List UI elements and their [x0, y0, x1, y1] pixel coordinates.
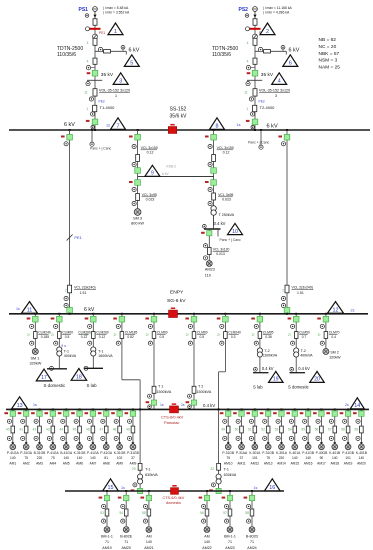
svg-text:AM3: AM3	[36, 462, 43, 466]
svg-text:S domestic: S domestic	[44, 383, 67, 388]
svg-text:AM20: AM20	[122, 546, 131, 550]
svg-text:2!: 2!	[51, 333, 54, 337]
svg-text:3: 3	[275, 94, 277, 98]
svg-text:PE2: PE2	[259, 100, 265, 104]
svg-text:35 kV: 35 kV	[261, 72, 274, 78]
svg-text:1.51: 1.51	[80, 291, 87, 295]
svg-text:2: 2	[282, 289, 284, 293]
svg-text:51: 51	[248, 427, 252, 431]
svg-text:K-401B: K-401B	[356, 451, 368, 455]
svg-text:75: 75	[266, 456, 270, 460]
svg-text:AM23: AM23	[205, 268, 215, 272]
svg-text:0.023: 0.023	[146, 197, 155, 201]
svg-text:6 kV: 6 kV	[162, 172, 169, 176]
svg-text:7: 7	[117, 124, 120, 130]
svg-text:101: 101	[252, 456, 258, 460]
svg-text:220: 220	[37, 456, 43, 460]
svg-text:2s: 2s	[345, 403, 349, 407]
svg-text:NBK = 57: NBK = 57	[319, 51, 340, 57]
svg-text:2s: 2s	[351, 309, 355, 313]
svg-text:53: 53	[275, 427, 279, 431]
svg-text:AM24: AM24	[247, 546, 256, 550]
svg-text:T-2: T-2	[264, 349, 269, 353]
svg-text:B-41GA: B-41GA	[60, 451, 73, 455]
svg-text:P-41GA: P-41GA	[47, 451, 60, 455]
svg-text:CLM260: CLM260	[78, 331, 91, 335]
svg-text:140: 140	[305, 456, 311, 460]
svg-text:1s: 1s	[33, 403, 37, 407]
svg-text:1s: 1s	[254, 486, 258, 490]
svg-text:71: 71	[105, 540, 109, 544]
svg-text:6 kV: 6 kV	[129, 48, 140, 54]
svg-text:K-301A: K-301A	[276, 451, 288, 455]
svg-text:4: 4	[247, 41, 249, 45]
svg-text:0.023: 0.023	[222, 197, 231, 201]
svg-text:4: 4	[278, 79, 281, 85]
svg-text:1600kVA: 1600kVA	[98, 354, 113, 358]
svg-text:PE1: PE1	[74, 235, 81, 240]
svg-text:53: 53	[100, 511, 104, 515]
svg-text:CLM185: CLM185	[125, 331, 138, 335]
svg-text:AM6: AM6	[76, 462, 83, 466]
svg-text:CLM95: CLM95	[263, 331, 274, 335]
svg-text:32: 32	[210, 467, 214, 471]
svg-text:0.4 kV: 0.4 kV	[203, 403, 215, 408]
svg-text:6 kV: 6 kV	[267, 123, 278, 129]
svg-text:S domestic: S domestic	[288, 384, 309, 389]
svg-text:AM14: AM14	[277, 462, 286, 466]
svg-text:0.82: 0.82	[127, 335, 134, 339]
svg-text:AM7: AM7	[90, 462, 97, 466]
svg-text:NC = 20: NC = 20	[319, 44, 337, 50]
svg-text:domestic: domestic	[166, 501, 181, 505]
svg-text:0.12: 0.12	[223, 151, 230, 155]
svg-text:P-41GA: P-41GA	[87, 451, 100, 455]
svg-text:20: 20	[314, 377, 320, 383]
svg-text:2!: 2!	[27, 333, 30, 337]
svg-text:CTS-6/0.4kV: CTS-6/0.4kV	[161, 415, 184, 420]
svg-text:Panc + j Canc: Panc + j Canc	[248, 141, 270, 145]
svg-text:400kVA: 400kVA	[300, 354, 313, 358]
svg-text:T-1: T-1	[145, 468, 150, 472]
svg-text:2!: 2!	[114, 333, 117, 337]
svg-text:10: 10	[232, 229, 238, 235]
svg-text:43: 43	[46, 427, 50, 431]
svg-text:P-31GA: P-31GA	[20, 451, 33, 455]
svg-text:58: 58	[245, 511, 249, 515]
svg-text:2!: 2!	[217, 333, 220, 337]
svg-text:T2-4000: T2-4000	[260, 105, 276, 110]
svg-text:CLM60: CLM60	[197, 331, 208, 335]
svg-text:T-1: T-1	[64, 349, 69, 353]
svg-text:VCL 3x95: VCL 3x95	[218, 193, 233, 197]
svg-text:AM4: AM4	[49, 462, 56, 466]
svg-text:1.51: 1.51	[297, 291, 304, 295]
svg-text:630kVA: 630kVA	[145, 473, 158, 477]
svg-text:SM 2: SM 2	[330, 351, 338, 355]
svg-text:1: 1	[115, 94, 117, 98]
svg-text:0.4 kV: 0.4 kV	[298, 366, 310, 371]
svg-text:AM5: AM5	[63, 462, 70, 466]
svg-text:140: 140	[146, 540, 152, 544]
svg-text:B-31GB: B-31GB	[34, 451, 47, 455]
svg-text:PE1: PE1	[99, 31, 105, 35]
svg-text:0.36: 0.36	[265, 335, 272, 339]
svg-text:Panc + j Canc: Panc + j Canc	[90, 147, 112, 151]
svg-text:8: 8	[216, 124, 219, 130]
svg-text:AM11: AM11	[237, 462, 246, 466]
svg-text:37: 37	[131, 456, 135, 460]
svg-text:110: 110	[205, 274, 211, 278]
svg-text:56: 56	[315, 427, 319, 431]
svg-text:41: 41	[19, 427, 23, 431]
svg-text:SS-152: SS-152	[170, 107, 187, 113]
svg-text:1s: 1s	[121, 486, 125, 490]
svg-text:P-31AA: P-31AA	[236, 451, 248, 455]
svg-text:29: 29	[132, 467, 136, 471]
svg-text:CLM240: CLM240	[228, 331, 241, 335]
svg-text:320kW: 320kW	[329, 356, 341, 360]
svg-text:1: 1	[114, 29, 117, 35]
svg-text:AM21: AM21	[144, 546, 153, 550]
svg-text:T 2: T 2	[198, 385, 203, 389]
svg-text:K-31GB: K-31GB	[74, 451, 87, 455]
svg-text:4: 4	[87, 41, 89, 45]
svg-text:1500kVA: 1500kVA	[157, 390, 172, 394]
svg-text:2s: 2s	[181, 403, 185, 407]
svg-text:0.5: 0.5	[200, 335, 205, 339]
svg-text:AM1: AM1	[9, 462, 16, 466]
svg-text:VOL-35-152 3x120: VOL-35-152 3x120	[99, 89, 130, 93]
svg-text:48: 48	[113, 427, 117, 431]
svg-text:Panc + j Canc: Panc + j Canc	[220, 238, 242, 242]
svg-text:2: 2	[65, 289, 67, 293]
svg-text:6 kV: 6 kV	[64, 122, 75, 128]
svg-text:35 kV: 35 kV	[101, 72, 114, 78]
svg-text:140: 140	[90, 456, 96, 460]
svg-text:BM-1-1: BM-1-1	[101, 535, 113, 539]
svg-text:13: 13	[17, 403, 23, 409]
svg-text:6 kV: 6 kV	[84, 307, 95, 313]
svg-text:2!: 2!	[146, 333, 149, 337]
svg-text:0.4: 0.4	[331, 335, 336, 339]
svg-text:PS1: PS1	[79, 7, 89, 13]
svg-text:4: 4	[247, 60, 249, 64]
svg-text:47: 47	[99, 427, 103, 431]
svg-text:0.3: 0.3	[231, 335, 236, 339]
svg-text:9: 9	[151, 171, 154, 177]
svg-text:49: 49	[221, 427, 225, 431]
svg-text:T 1: T 1	[158, 385, 163, 389]
svg-text:6: 6	[289, 61, 292, 67]
svg-text:37: 37	[240, 456, 244, 460]
svg-text:1: 1	[86, 107, 88, 111]
svg-text:| i min = 3.552 kA: | i min = 3.552 kA	[103, 10, 130, 14]
svg-text:K-31GB: K-31GB	[114, 451, 127, 455]
svg-text:0.4 kV: 0.4 kV	[262, 366, 274, 371]
svg-text:11: 11	[84, 91, 88, 95]
svg-text:VCL 2(3x240): VCL 2(3x240)	[74, 286, 95, 290]
svg-text:75: 75	[24, 456, 28, 460]
svg-text:T 250kVA: T 250kVA	[219, 213, 235, 217]
svg-text:56: 56	[200, 511, 204, 515]
svg-text:VCL 3x150: VCL 3x150	[217, 146, 234, 150]
svg-text:57: 57	[223, 511, 227, 515]
svg-text:AM10: AM10	[224, 462, 233, 466]
svg-text:P-41GA: P-41GA	[7, 451, 20, 455]
svg-text:AM12: AM12	[251, 462, 260, 466]
svg-text:SM 1: SM 1	[31, 357, 40, 361]
svg-text:K-401B: K-401B	[329, 451, 341, 455]
svg-text:NSM = 3: NSM = 3	[319, 58, 338, 64]
svg-text:18: 18	[76, 375, 82, 381]
svg-text:PS2: PS2	[239, 7, 249, 13]
svg-text:57: 57	[328, 427, 332, 431]
svg-text:54: 54	[119, 511, 123, 515]
svg-text:1s: 1s	[237, 123, 241, 127]
svg-text:4: 4	[87, 60, 89, 64]
svg-text:CLM60: CLM60	[157, 331, 168, 335]
svg-text:BM-1-1: BM-1-1	[224, 535, 236, 539]
svg-text:VCL 3x120: VCL 3x120	[213, 248, 230, 252]
svg-text:AM19: AM19	[344, 462, 353, 466]
svg-text:AM20: AM20	[357, 462, 366, 466]
svg-text:SM 3: SM 3	[133, 217, 142, 221]
svg-text:0.185: 0.185	[41, 335, 49, 339]
svg-text:AM: AM	[204, 535, 209, 539]
svg-text:NAM = 25: NAM = 25	[319, 65, 341, 71]
svg-text:T1-4000: T1-4000	[100, 105, 116, 110]
svg-text:0.013: 0.013	[216, 252, 225, 256]
svg-text:1: 1	[246, 107, 248, 111]
svg-text:140: 140	[332, 456, 338, 460]
svg-text:11: 11	[244, 91, 248, 95]
svg-text:140: 140	[292, 456, 298, 460]
svg-text:CLM260: CLM260	[96, 331, 109, 335]
svg-text:140: 140	[77, 456, 83, 460]
svg-text:52: 52	[261, 427, 265, 431]
svg-text:50: 50	[235, 427, 239, 431]
svg-text:VCL 2(3x240): VCL 2(3x240)	[292, 286, 313, 290]
svg-text:11: 11	[27, 307, 33, 313]
svg-text:630kVA: 630kVA	[224, 473, 237, 477]
svg-text:71: 71	[124, 540, 128, 544]
svg-text:140: 140	[204, 540, 210, 544]
svg-text:17: 17	[41, 375, 47, 381]
svg-text:VCL 3x150: VCL 3x150	[141, 146, 158, 150]
svg-text:1500kVA: 1500kVA	[197, 390, 212, 394]
svg-text:19: 19	[273, 377, 279, 383]
svg-text:P-31GB: P-31GB	[127, 451, 140, 455]
svg-text:ENPY: ENPY	[170, 290, 184, 296]
svg-text:K-301A: K-301A	[249, 451, 261, 455]
svg-text:320kW: 320kW	[30, 361, 42, 365]
svg-text:2!: 2!	[252, 333, 255, 337]
svg-text:0.5: 0.5	[65, 335, 70, 339]
svg-text:T-2: T-2	[301, 349, 306, 353]
svg-text:CLM70: CLM70	[329, 331, 340, 335]
svg-text:S lab: S lab	[253, 384, 263, 389]
svg-text:102: 102	[117, 456, 123, 460]
svg-text:1s: 1s	[16, 307, 20, 311]
svg-text:140: 140	[10, 456, 16, 460]
svg-text:AM22: AM22	[202, 546, 211, 550]
svg-text:2!: 2!	[318, 333, 321, 337]
svg-text:0.12: 0.12	[99, 335, 106, 339]
svg-text:40: 40	[6, 427, 10, 431]
svg-text:220: 220	[279, 456, 285, 460]
svg-text:| i min = 4.286 kA: | i min = 4.286 kA	[263, 10, 290, 14]
svg-text:VOL-35-152 3x120: VOL-35-152 3x120	[259, 89, 290, 93]
svg-text:AM: AM	[146, 535, 151, 539]
svg-text:CLM50: CLM50	[299, 331, 310, 335]
svg-text:90: 90	[320, 456, 324, 460]
svg-text:0.5: 0.5	[160, 335, 165, 339]
svg-text:T-1: T-1	[98, 349, 103, 353]
svg-text:59: 59	[355, 427, 359, 431]
svg-text:2!: 2!	[186, 333, 189, 337]
svg-text:14: 14	[354, 403, 360, 409]
svg-text:101: 101	[345, 456, 351, 460]
svg-text:AM2: AM2	[23, 462, 30, 466]
svg-text:SG-6 kV: SG-6 kV	[167, 298, 186, 304]
svg-text:2: 2	[266, 29, 269, 35]
svg-text:6 kV: 6 kV	[289, 48, 300, 54]
svg-text:0.12: 0.12	[147, 151, 154, 155]
svg-text:P-41GB: P-41GB	[302, 451, 315, 455]
svg-text:P-31GB: P-31GB	[222, 451, 235, 455]
svg-text:Parsotac: Parsotac	[164, 420, 179, 425]
svg-text:15: 15	[108, 485, 114, 491]
svg-text:75: 75	[51, 456, 55, 460]
svg-text:35/6 kV: 35/6 kV	[170, 114, 188, 120]
svg-text:110/35/6: 110/35/6	[212, 52, 231, 58]
svg-text:AM17: AM17	[317, 462, 326, 466]
svg-text:PE2: PE2	[99, 100, 105, 104]
svg-text:VCL 3x95: VCL 3x95	[142, 193, 157, 197]
svg-text:S lab: S lab	[87, 383, 98, 388]
svg-text:KKB-2: KKB-2	[167, 165, 177, 169]
svg-text:49: 49	[126, 427, 130, 431]
svg-text:B-802E: B-802E	[120, 535, 133, 539]
svg-text:45: 45	[73, 427, 77, 431]
svg-text:0.12: 0.12	[81, 335, 88, 339]
svg-text:9 s: 9 s	[61, 344, 66, 348]
svg-text:CTS-6/0.4kV: CTS-6/0.4kV	[163, 496, 185, 500]
svg-text:400kVA: 400kVA	[64, 354, 77, 358]
svg-text:AM9: AM9	[116, 462, 123, 466]
svg-text:AM23: AM23	[225, 546, 234, 550]
svg-text:P-41GB: P-41GB	[342, 451, 355, 455]
svg-text:44: 44	[59, 427, 63, 431]
svg-text:110/35/6: 110/35/6	[57, 52, 76, 58]
svg-text:1600kVA: 1600kVA	[263, 354, 278, 358]
svg-text:AM19: AM19	[102, 546, 111, 550]
svg-text:P-31GB: P-31GB	[262, 451, 275, 455]
svg-text:5: 5	[130, 61, 133, 67]
svg-text:55: 55	[301, 427, 305, 431]
svg-text:0.7: 0.7	[302, 335, 307, 339]
svg-text:AM15: AM15	[290, 462, 299, 466]
svg-text:AM13: AM13	[264, 462, 273, 466]
svg-text:3: 3	[119, 79, 122, 85]
svg-text:AM16: AM16	[304, 462, 313, 466]
svg-text:0.4 kV: 0.4 kV	[214, 221, 226, 226]
svg-text:B-802D: B-802D	[246, 535, 259, 539]
svg-text:K-401A: K-401A	[289, 451, 301, 455]
svg-text:12: 12	[333, 307, 339, 313]
svg-text:81: 81	[104, 456, 108, 460]
svg-text:16: 16	[269, 485, 275, 491]
svg-text:CLM240: CLM240	[38, 331, 51, 335]
svg-text:75: 75	[226, 456, 230, 460]
svg-text:AM8: AM8	[103, 462, 110, 466]
svg-text:42: 42	[33, 427, 37, 431]
svg-text:54: 54	[288, 427, 292, 431]
svg-text:58: 58	[341, 427, 345, 431]
svg-text:P-40GB: P-40GB	[316, 451, 329, 455]
svg-text:1s: 1s	[160, 403, 164, 407]
svg-text:46: 46	[86, 427, 90, 431]
svg-text:1s: 1s	[106, 124, 110, 128]
svg-text:T-1: T-1	[224, 468, 229, 472]
svg-text:P-41GA: P-41GA	[100, 451, 113, 455]
svg-text:800 kW: 800 kW	[131, 221, 144, 225]
svg-text:2!: 2!	[288, 333, 291, 337]
svg-text:140: 140	[359, 456, 365, 460]
svg-text:140: 140	[63, 456, 69, 460]
svg-text:55: 55	[142, 511, 146, 515]
svg-text:71: 71	[228, 540, 232, 544]
svg-text:AM9: AM9	[130, 462, 137, 466]
svg-text:CLM60: CLM60	[62, 331, 73, 335]
svg-text:NB = 62: NB = 62	[319, 37, 337, 43]
svg-text:71: 71	[250, 540, 254, 544]
svg-text:AM18: AM18	[330, 462, 339, 466]
